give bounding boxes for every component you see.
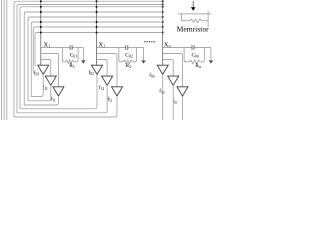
svg-text:Memristor: Memristor xyxy=(177,24,210,33)
